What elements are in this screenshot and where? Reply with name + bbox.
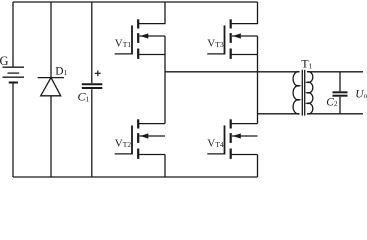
wire top rail bbox=[13, 1, 258, 3]
svg-text:G: G bbox=[0, 54, 9, 68]
wire VT4 source to bottom rail bbox=[257, 155, 259, 178]
battery G bbox=[3, 67, 25, 82]
transistor VT3 bbox=[207, 19, 257, 59]
capacitor C2 bbox=[333, 92, 348, 95]
transformer T1 secondary winding bbox=[307, 72, 313, 114]
wire VT3 drain to top rail bbox=[231, 2, 258, 24]
wire C1 branch lower segment bbox=[91, 89, 93, 177]
transistor VT2 bbox=[115, 119, 165, 159]
wire C2 branch lower segment bbox=[339, 97, 341, 114]
wire VT2 drain lead bbox=[138, 123, 165, 125]
diode D1 bbox=[38, 78, 64, 96]
wire left leg midpoint (VT1 source to VT2 drain) bbox=[164, 36, 166, 124]
wire C1 branch upper segment bbox=[91, 2, 93, 83]
wire VT4 drain lead bbox=[231, 123, 258, 125]
wire bottom rail bbox=[13, 176, 258, 178]
plus sign of C1 bbox=[95, 70, 101, 76]
wire C2 branch upper segment bbox=[339, 72, 341, 92]
transformer T1 primary winding bbox=[293, 72, 299, 114]
wire secondary bottom lead bbox=[307, 113, 363, 115]
wire D1 branch lower segment bbox=[50, 96, 52, 177]
wire VT1 drain to top rail bbox=[138, 2, 165, 24]
wire secondary top lead bbox=[307, 71, 363, 73]
wire node B rail (VT3/VT4 midpoint to primary bottom) bbox=[258, 113, 300, 115]
wire right leg midpoint (VT3 source to VT4 drain) bbox=[257, 36, 259, 124]
wire G branch upper segment bbox=[12, 2, 14, 67]
transformer T1 core bbox=[301, 70, 303, 116]
wire D1 branch upper segment bbox=[50, 2, 52, 77]
capacitor C1 bbox=[82, 84, 103, 88]
wire VT2 source to bottom rail bbox=[164, 155, 166, 178]
wire G branch lower segment bbox=[12, 83, 14, 177]
transistor VT1 bbox=[115, 19, 165, 59]
transistor VT4 bbox=[207, 119, 257, 159]
wire node A rail (VT1/VT2 midpoint to primary top) bbox=[165, 71, 300, 73]
